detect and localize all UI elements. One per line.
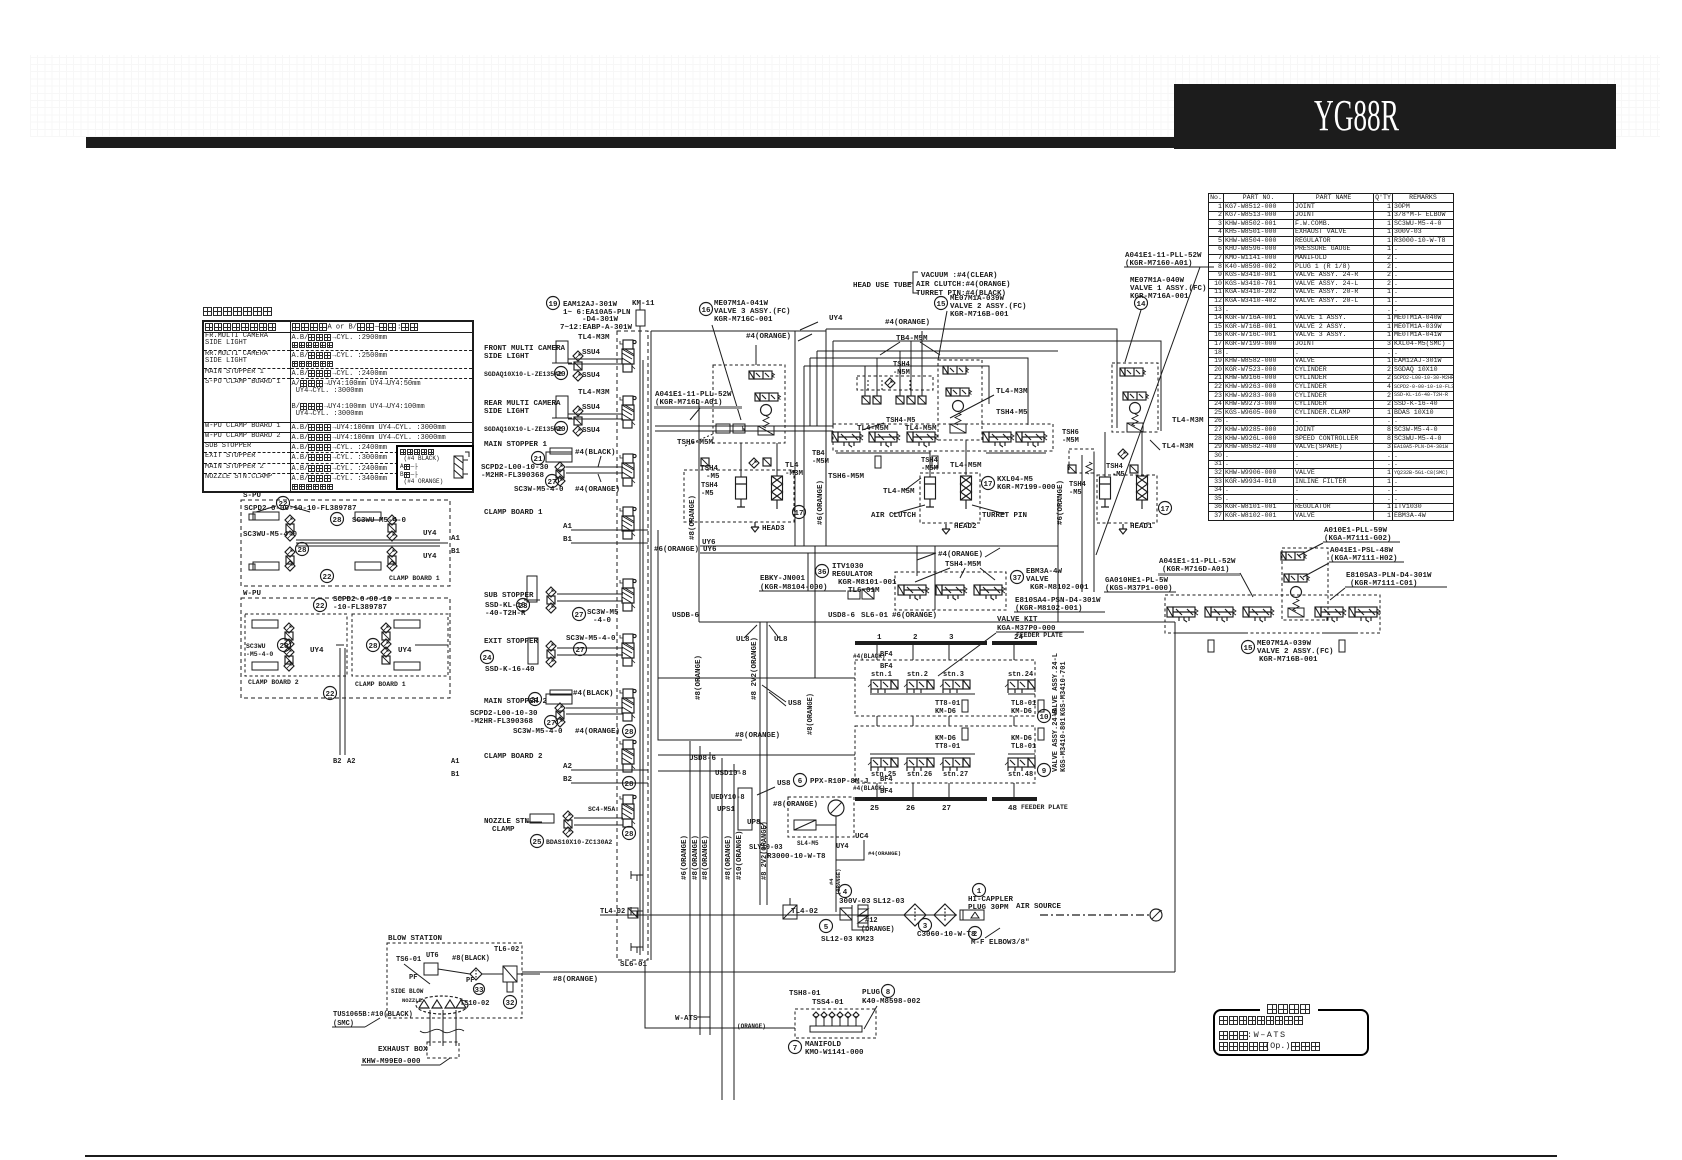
svg-text:VALVE: VALVE xyxy=(1026,576,1049,584)
valve 37 EBM3A-4W label xyxy=(1011,571,1024,584)
svg-text:US8: US8 xyxy=(777,780,791,788)
svg-text:#4(ORANGE): #4(ORANGE) xyxy=(938,551,983,559)
svg-text:27: 27 xyxy=(574,612,583,620)
svg-text:VALVE 2 ASSY.(FC): VALVE 2 ASSY.(FC) xyxy=(1257,648,1334,656)
svg-text:TSH6-M5M: TSH6-M5M xyxy=(677,439,714,447)
svg-text:PLUG 30PM: PLUG 30PM xyxy=(968,904,1009,912)
cylinder HEAD1 left xyxy=(1069,449,1094,473)
svg-text:27: 27 xyxy=(942,805,951,813)
svg-text:TL4-M3M: TL4-M3M xyxy=(1172,417,1204,425)
wire strip supply bus xyxy=(639,334,641,955)
svg-text:-M2HR-FL390368: -M2HR-FL390368 xyxy=(481,472,545,480)
svg-text:HI-CAPPLER: HI-CAPPLER xyxy=(968,896,1014,904)
svg-text:SSU4: SSU4 xyxy=(582,372,601,380)
valve SV3 (strip) xyxy=(620,454,636,486)
svg-text:UY4: UY4 xyxy=(836,843,849,851)
svg-text:1: 1 xyxy=(977,888,982,896)
svg-text:#4: #4 xyxy=(828,878,835,885)
svg-text:USDB-6: USDB-6 xyxy=(672,612,700,620)
svg-text:1: 1 xyxy=(877,634,882,642)
valve 5-port v2row xyxy=(1205,607,1236,622)
svg-text:SGDAQ10X10-L-ZE135A2: SGDAQ10X10-L-ZE135A2 xyxy=(484,426,562,433)
svg-text:SC4-M5A: SC4-M5A xyxy=(588,806,615,813)
svg-text:FEEDER PLATE: FEEDER PLATE xyxy=(1016,632,1063,639)
svg-text:TL4-M3M: TL4-M3M xyxy=(578,389,610,397)
valve H1-3 xyxy=(1127,423,1143,432)
svg-text:EXHAUST BOX: EXHAUST BOX xyxy=(378,1046,428,1054)
svg-text:A041E1-11-PLL-52W: A041E1-11-PLL-52W xyxy=(1159,558,1236,566)
svg-text:TUS1065B:#10(BLACK): TUS1065B:#10(BLACK) xyxy=(333,1011,413,1019)
svg-text:NOZZLE: NOZZLE xyxy=(402,997,423,1004)
svg-text:TL4-M3M: TL4-M3M xyxy=(1162,443,1194,451)
valve stn.26 xyxy=(904,758,934,771)
svg-text:#6(ORANGE): #6(ORANGE) xyxy=(681,835,689,880)
svg-text:TSH4: TSH4 xyxy=(1069,481,1086,489)
svg-text:24: 24 xyxy=(1014,634,1024,642)
svg-text:PF: PF xyxy=(409,974,417,982)
svg-text:2: 2 xyxy=(973,931,978,939)
svg-text:KGS-M3410-701: KGS-M3410-701 xyxy=(1060,661,1068,716)
svg-text:stn.3: stn.3 xyxy=(943,671,964,679)
svg-text:3: 3 xyxy=(923,923,928,931)
filter 2 xyxy=(934,904,956,926)
valve 5-port xyxy=(907,432,938,447)
svg-text:2: 2 xyxy=(913,634,918,642)
valve V2-a xyxy=(1281,552,1307,560)
svg-text:US8: US8 xyxy=(788,700,802,708)
svg-text:A2: A2 xyxy=(347,758,355,766)
svg-text:SC3WU-M5-4-0: SC3WU-M5-4-0 xyxy=(352,517,407,525)
svg-text:15: 15 xyxy=(1243,645,1253,653)
svg-text:B1: B1 xyxy=(451,548,461,556)
svg-text:KGR-M716C-001: KGR-M716C-001 xyxy=(714,316,773,324)
node W-PU clamp board 2 (inner) xyxy=(245,614,347,676)
svg-text:#4(ORANGE): #4(ORANGE) xyxy=(885,319,930,327)
svg-text:SCPD2-L00-10-30: SCPD2-L00-10-30 xyxy=(470,710,538,718)
wire A1 xyxy=(571,529,648,531)
valve 14 VALVE 1 ASSY label xyxy=(1135,297,1148,310)
cylinder W-PU CB1 xyxy=(394,620,420,628)
svg-text:W-PU: W-PU xyxy=(243,590,262,598)
svg-text:KM-D6: KM-D6 xyxy=(935,708,956,716)
svg-text:-M2HR-FL390368: -M2HR-FL390368 xyxy=(470,718,534,726)
svg-text:SIDE LIGHT: SIDE LIGHT xyxy=(484,353,530,361)
wire leader to head3 xyxy=(712,325,741,420)
joint SL sq xyxy=(862,396,870,404)
wire UY4 nested bus xyxy=(826,329,1117,428)
svg-text:-M5M: -M5M xyxy=(1062,437,1079,445)
svg-text:17: 17 xyxy=(794,510,803,518)
svg-text:TSH4: TSH4 xyxy=(893,361,910,369)
svg-text:#4(ORANGE): #4(ORANGE) xyxy=(746,333,791,341)
svg-text:#6(ORANGE): #6(ORANGE) xyxy=(1057,480,1065,525)
filter small xyxy=(470,968,482,980)
svg-text:HEAD3: HEAD3 xyxy=(762,525,785,533)
svg-text:stn.2: stn.2 xyxy=(907,671,928,679)
svg-text:SCPD2-L00-10-30: SCPD2-L00-10-30 xyxy=(481,464,549,472)
svg-text:28: 28 xyxy=(368,643,378,651)
speed controller xyxy=(573,406,583,416)
svg-text:UL8: UL8 xyxy=(736,636,750,644)
svg-text:SCPD2-0-00-10: SCPD2-0-00-10 xyxy=(333,596,392,604)
svg-text:#4(BLACK): #4(BLACK) xyxy=(573,690,614,698)
svg-text:SL4-M5: SL4-M5 xyxy=(797,840,819,847)
svg-text:15: 15 xyxy=(936,301,946,309)
svg-text:VALVE 2 ASSY.(FC): VALVE 2 ASSY.(FC) xyxy=(950,303,1027,311)
valve manifold station xyxy=(974,585,1005,600)
svg-text:A010E1-PLL-59W: A010E1-PLL-59W xyxy=(1324,527,1388,535)
gauge 6 PPX-R10P-8M-J xyxy=(794,774,807,787)
valve assembly 24-L box xyxy=(855,660,1035,716)
valve 16 VALVE 3 ASSY label xyxy=(700,303,713,316)
valve SV4 (strip) xyxy=(620,507,636,539)
svg-text:BF4: BF4 xyxy=(880,651,893,659)
svg-text:#10(ORANGE): #10(ORANGE) xyxy=(736,830,744,880)
svg-text:24: 24 xyxy=(482,655,492,663)
valve V2-b xyxy=(1284,574,1310,582)
svg-text:HEAD2: HEAD2 xyxy=(954,523,977,531)
tconn fitting xyxy=(631,943,643,953)
regulator symbol xyxy=(848,591,860,599)
wires head3 internals xyxy=(740,443,742,477)
svg-text:TSH4-M5: TSH4-M5 xyxy=(996,409,1028,417)
valve stn.25 xyxy=(868,758,898,771)
tconn fitting xyxy=(631,907,643,917)
svg-text:TL8-01: TL8-01 xyxy=(1011,743,1036,751)
svg-text:#8(ORANGE): #8(ORANGE) xyxy=(702,835,710,880)
svg-text:PPX-R10P-8M-J: PPX-R10P-8M-J xyxy=(810,778,869,786)
svg-text:TB4: TB4 xyxy=(812,450,825,458)
wire strip-to-nest link xyxy=(651,330,826,332)
cylinder HEAD1 right (x) xyxy=(1137,476,1148,509)
svg-text:21: 21 xyxy=(530,697,540,705)
svg-text:#8(ORANGE): #8(ORANGE) xyxy=(735,732,780,740)
svg-text:stn.1: stn.1 xyxy=(871,671,892,679)
valve 5-port xyxy=(869,432,900,447)
svg-text:stn.48: stn.48 xyxy=(1008,771,1033,779)
svg-text:VALVE 1 ASSY.(FC): VALVE 1 ASSY.(FC) xyxy=(1130,285,1207,293)
svg-text:-M5M: -M5M xyxy=(812,458,829,466)
svg-text:36: 36 xyxy=(817,569,827,577)
svg-text:USD8-6: USD8-6 xyxy=(828,612,856,620)
svg-text:TL4-02: TL4-02 xyxy=(600,908,625,916)
svg-text:PLUG: PLUG xyxy=(862,989,881,997)
svg-text:KXL04-M5: KXL04-M5 xyxy=(997,476,1034,484)
valve 5-port v2row xyxy=(1243,607,1274,622)
valve H1-2 xyxy=(1123,392,1149,400)
svg-text:SL6-01: SL6-01 xyxy=(861,612,889,620)
svg-text:UPS1: UPS1 xyxy=(717,806,736,814)
blow nozzles xyxy=(419,1000,429,1008)
wire S-PU to A1/B1 xyxy=(296,539,440,541)
valve 5-port xyxy=(832,432,863,447)
cylinder S-PU left pair xyxy=(253,512,279,520)
svg-text:SGDAQ10X10-L-ZE135A2: SGDAQ10X10-L-ZE135A2 xyxy=(484,371,562,378)
svg-text:TSH8-01: TSH8-01 xyxy=(789,990,821,998)
svg-text:TL8-01: TL8-01 xyxy=(1011,700,1036,708)
svg-text:KM-D6: KM-D6 xyxy=(1011,735,1032,743)
gauge circle xyxy=(761,405,772,416)
valve SV1 (strip) xyxy=(620,340,636,372)
svg-text:TL4-M3M: TL4-M3M xyxy=(996,388,1028,396)
svg-text:25: 25 xyxy=(870,805,880,813)
svg-text:-M5: -M5 xyxy=(706,473,720,481)
svg-text:#4(ORANGE): #4(ORANGE) xyxy=(575,728,620,736)
svg-text:SIDE BLOW: SIDE BLOW xyxy=(391,988,424,995)
valve strip dashed enclosure xyxy=(617,331,648,960)
wire W-PU A2/B2 drop xyxy=(336,644,344,646)
valve assembly HEAD3 upper dashed box xyxy=(713,365,785,443)
svg-text:CLAMP BOARD 2: CLAMP BOARD 2 xyxy=(484,753,543,761)
svg-text:32: 32 xyxy=(505,1000,515,1008)
svg-text:KGR-M8101-001: KGR-M8101-001 xyxy=(838,579,897,587)
svg-text:M-F ELBOW3/8": M-F ELBOW3/8" xyxy=(971,939,1030,947)
valve SV5 (strip) xyxy=(620,579,636,611)
valve SV7 (strip) xyxy=(620,689,636,721)
svg-text:BF4: BF4 xyxy=(880,776,893,784)
svg-text:KGR-M8102-001: KGR-M8102-001 xyxy=(1030,584,1089,592)
svg-text:BF4: BF4 xyxy=(880,788,893,796)
svg-text:KGR-M716A-001: KGR-M716A-001 xyxy=(1130,293,1189,301)
svg-text:21: 21 xyxy=(533,456,543,464)
svg-text:-M5M: -M5M xyxy=(921,465,938,473)
svg-text:SSU4: SSU4 xyxy=(582,349,601,357)
valve assembly HEAD2 middle valves xyxy=(938,360,982,440)
svg-text:28: 28 xyxy=(332,517,342,525)
svg-text:KMO-W1141-000: KMO-W1141-000 xyxy=(805,1049,864,1057)
svg-text:CLAMP BOARD 1: CLAMP BOARD 1 xyxy=(389,575,440,582)
tconn fitting xyxy=(631,871,643,881)
svg-text:SSU4: SSU4 xyxy=(582,404,601,412)
valve left small xyxy=(716,424,730,433)
svg-text:TSH4: TSH4 xyxy=(701,482,718,490)
cylinder S-PU right pair xyxy=(355,512,381,520)
svg-text:6: 6 xyxy=(798,778,803,786)
svg-text:UL8: UL8 xyxy=(774,636,788,644)
svg-text:#8(ORANGE): #8(ORANGE) xyxy=(807,693,815,735)
cylinder AIR CLUTCH xyxy=(925,477,936,507)
svg-text:USD8-6: USD8-6 xyxy=(689,755,717,763)
svg-text:(KGR-M716D-A01): (KGR-M716D-A01) xyxy=(1162,566,1230,574)
svg-text:16: 16 xyxy=(701,307,711,315)
svg-text:A041E1-PSL-48W: A041E1-PSL-48W xyxy=(1330,547,1394,555)
svg-text:TURRET PIN: TURRET PIN xyxy=(982,512,1027,520)
svg-text:#6(ORANGE): #6(ORANGE) xyxy=(892,612,937,620)
valve 15 VALVE 2 ASSY label xyxy=(935,297,948,310)
valve assembly 24-R box xyxy=(855,726,1035,783)
svg-text:SLY10-03: SLY10-03 xyxy=(749,844,783,852)
svg-text:KM-D6: KM-D6 xyxy=(1011,708,1032,716)
svg-text:BDAS10X10-ZC130A2: BDAS10X10-ZC130A2 xyxy=(546,839,612,846)
wire UY6 bus xyxy=(698,400,700,622)
svg-text:SSU4: SSU4 xyxy=(582,427,601,435)
svg-text:KGR-M7199-000: KGR-M7199-000 xyxy=(997,484,1056,492)
wire B1 xyxy=(571,542,648,544)
svg-text:K40-M8598-002: K40-M8598-002 xyxy=(862,998,921,1006)
svg-text:VALVE KIT: VALVE KIT xyxy=(997,616,1038,624)
svg-text:27: 27 xyxy=(575,647,584,655)
valve SV6 (strip) xyxy=(620,634,636,666)
svg-text:TSS4-01: TSS4-01 xyxy=(812,999,844,1007)
svg-text:#12: #12 xyxy=(865,917,878,925)
svg-text:TSH6-M5M: TSH6-M5M xyxy=(828,473,865,481)
svg-text:#8(BLACK): #8(BLACK) xyxy=(452,955,490,963)
valve assembly HEAD1 block xyxy=(1112,363,1158,432)
svg-text:#6(ORANGE): #6(ORANGE) xyxy=(817,480,825,525)
svg-text:AIR SOURCE: AIR SOURCE xyxy=(1016,903,1062,911)
svg-text:stn.24: stn.24 xyxy=(1008,671,1033,679)
wire nest-to-squares drops xyxy=(864,366,866,396)
svg-text:TSH4: TSH4 xyxy=(1106,463,1123,471)
svg-text:#8(ORANGE): #8(ORANGE) xyxy=(725,835,733,880)
svg-text:HEAD1: HEAD1 xyxy=(1130,523,1153,531)
svg-text:28: 28 xyxy=(624,831,634,839)
svg-text:C3060-10-W-T8: C3060-10-W-T8 xyxy=(917,931,976,939)
svg-text:EAM12AJ-301W: EAM12AJ-301W xyxy=(563,301,618,309)
svg-text:27: 27 xyxy=(546,720,555,728)
svg-text:ITV1030: ITV1030 xyxy=(832,563,864,571)
wire nest bottom bus xyxy=(804,545,1058,547)
svg-text:3: 3 xyxy=(949,634,954,642)
svg-text:BLOW STATION: BLOW STATION xyxy=(388,935,442,943)
label 36 regulator ITV1030 xyxy=(816,565,829,578)
svg-text:-M5: -M5 xyxy=(1069,489,1082,497)
speed controller xyxy=(573,351,583,361)
valve assembly V2 center xyxy=(1282,548,1328,620)
gauge xyxy=(1130,403,1141,414)
svg-text:PF: PF xyxy=(466,977,474,985)
svg-text:SC3W-M5-4-0: SC3W-M5-4-0 xyxy=(566,635,616,643)
valve manifold station xyxy=(936,585,967,600)
feeder plate bottom xyxy=(855,797,987,801)
svg-text:EBM3A-4W: EBM3A-4W xyxy=(1026,568,1063,576)
wires blow station internals xyxy=(438,969,470,974)
svg-text:4: 4 xyxy=(843,889,848,897)
svg-text:-10-FL389787: -10-FL389787 xyxy=(333,604,387,612)
dashed box head2 cyl xyxy=(920,473,980,523)
svg-text:FEEDER PLATE: FEEDER PLATE xyxy=(1021,804,1068,811)
ground head3 xyxy=(751,522,759,532)
svg-text:-M5: -M5 xyxy=(701,490,714,498)
svg-text:#8(ORANGE): #8(ORANGE) xyxy=(553,976,598,984)
svg-text:#4(ORANGE): #4(ORANGE) xyxy=(868,850,901,857)
valve H3-1 xyxy=(749,371,775,379)
wire #8(ORANGE) blow line xyxy=(522,971,1175,973)
svg-text:CLAMP BOARD 1: CLAMP BOARD 1 xyxy=(355,681,406,688)
svg-text:A041E1-11-PLL-52W: A041E1-11-PLL-52W xyxy=(655,391,732,399)
svg-text:#4(BLACK): #4(BLACK) xyxy=(575,449,616,457)
valve row bottom dashed xyxy=(1165,595,1380,633)
wire nest left verticals xyxy=(825,329,827,546)
valve 5-port xyxy=(1016,432,1047,447)
valve H2-2 xyxy=(946,388,972,396)
svg-text:37: 37 xyxy=(1012,575,1021,583)
valve assembly HEAD2 center block xyxy=(857,376,933,390)
feeder plate top xyxy=(855,641,987,645)
cylinder HEAD3 left (vacuum) xyxy=(684,470,794,522)
svg-text:TSH4-M5: TSH4-M5 xyxy=(886,417,915,425)
svg-text:28: 28 xyxy=(624,781,634,789)
svg-text:TSH6: TSH6 xyxy=(1062,429,1079,437)
svg-text:A1: A1 xyxy=(451,758,459,766)
svg-text:REAR MULTI CAMERA: REAR MULTI CAMERA xyxy=(484,400,561,408)
wire air source main line xyxy=(600,914,957,916)
svg-text:TT8-01: TT8-01 xyxy=(935,743,960,751)
valve row TSH4 (5 valves) xyxy=(833,424,1053,451)
cylinder HEAD3 right (x) xyxy=(772,476,783,509)
valve stn.27 xyxy=(940,758,970,771)
svg-text:VALVE ASSY.24-R: VALVE ASSY.24-R xyxy=(1052,708,1060,772)
svg-text:SL6-01: SL6-01 xyxy=(620,961,648,969)
svg-text:33: 33 xyxy=(474,987,484,995)
ground head2 xyxy=(942,524,950,534)
svg-text:A041E1-11-PLL-52W: A041E1-11-PLL-52W xyxy=(1125,252,1202,260)
joint SL sq xyxy=(896,396,904,404)
svg-text:UP8: UP8 xyxy=(747,819,761,827)
svg-text:48: 48 xyxy=(1008,805,1018,813)
manifold bar xyxy=(810,1026,862,1032)
svg-text:SIDE LIGHT: SIDE LIGHT xyxy=(484,408,530,416)
svg-text:5: 5 xyxy=(824,924,829,932)
valve stn.48 xyxy=(1005,758,1035,771)
node W-PU clamp board 1 (inner) xyxy=(352,614,448,676)
air source symbol xyxy=(1150,909,1162,921)
svg-text:22: 22 xyxy=(325,691,335,699)
joint SL sq xyxy=(907,396,915,404)
svg-text:SC3WU: SC3WU xyxy=(246,643,266,650)
svg-text:14: 14 xyxy=(1136,301,1146,309)
ground head1 xyxy=(1119,524,1127,534)
svg-text:#8 2V2(ORANGE): #8 2V2(ORANGE) xyxy=(751,637,759,700)
svg-text:KM23: KM23 xyxy=(856,936,875,944)
svg-text:TT8-01: TT8-01 xyxy=(935,700,960,708)
svg-text:#8(ORANGE): #8(ORANGE) xyxy=(773,801,818,809)
svg-text:ME07M1A-040W: ME07M1A-040W xyxy=(1130,277,1185,285)
svg-text:UY4: UY4 xyxy=(423,553,437,561)
svg-text:MAIN STOPPER 1: MAIN STOPPER 1 xyxy=(484,441,548,449)
svg-text:KGS-M3410-801: KGS-M3410-801 xyxy=(1060,717,1068,772)
manifold 7 dashed box xyxy=(795,1009,876,1038)
svg-text:TL6-02: TL6-02 xyxy=(494,946,519,954)
svg-text:TS10-02: TS10-02 xyxy=(460,1000,489,1008)
svg-text:SL12-03: SL12-03 xyxy=(821,936,853,944)
svg-text:KM-D6: KM-D6 xyxy=(935,735,956,743)
svg-text:22: 22 xyxy=(315,603,325,611)
svg-text:AIR CLUTCH:#4(ORANGE): AIR CLUTCH:#4(ORANGE) xyxy=(916,281,1011,289)
wire to strip xyxy=(568,413,623,415)
svg-text:#4(ORANGE): #4(ORANGE) xyxy=(575,486,620,494)
svg-text:EBKY-JN001: EBKY-JN001 xyxy=(760,575,806,583)
svg-text:22: 22 xyxy=(322,574,332,582)
svg-text:28: 28 xyxy=(279,643,289,651)
svg-text:UY4: UY4 xyxy=(398,647,412,655)
svg-text:25: 25 xyxy=(532,839,542,847)
svg-text:SC3W-M5: SC3W-M5 xyxy=(587,609,619,617)
part 20 circle xyxy=(555,422,568,435)
svg-text:UT6: UT6 xyxy=(426,952,439,960)
svg-text:TS6-01: TS6-01 xyxy=(396,956,421,964)
svg-text:TL4-M5M: TL4-M5M xyxy=(883,488,915,496)
wire to strip xyxy=(568,358,623,360)
valve 5-port v2row xyxy=(1349,607,1380,622)
svg-text:UEDY10-8: UEDY10-8 xyxy=(711,794,745,802)
svg-text:SC3W-M5-4-0: SC3W-M5-4-0 xyxy=(514,486,564,494)
valve trio dashed box xyxy=(895,572,1006,610)
svg-text:A1: A1 xyxy=(451,535,461,543)
svg-text:-M5-4-0: -M5-4-0 xyxy=(246,651,273,658)
svg-text:SC3W-M5-4-0: SC3W-M5-4-0 xyxy=(513,728,563,736)
svg-text:CLAMP: CLAMP xyxy=(492,826,515,834)
